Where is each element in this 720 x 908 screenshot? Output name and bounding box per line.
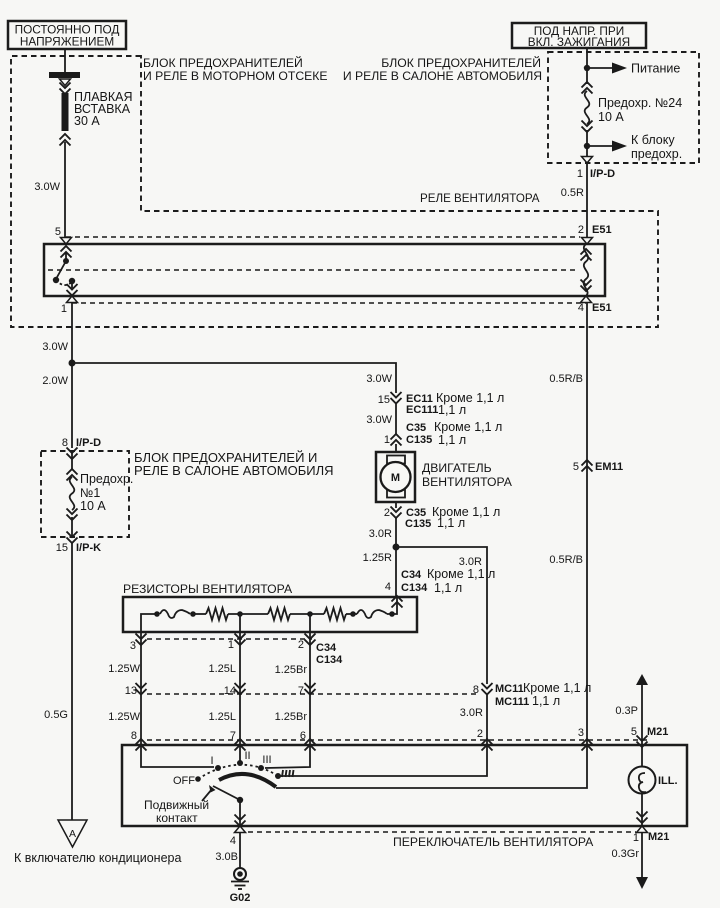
svg-text:I: I: [210, 755, 213, 767]
svg-text:10 А: 10 А: [80, 499, 106, 513]
wire pivot to pin 4: [239, 800, 241, 826]
wire into motor: [395, 444, 397, 452]
lamp ILL.: [629, 767, 678, 827]
svg-text:1,1 л: 1,1 л: [438, 433, 466, 447]
ground G02: [230, 868, 251, 904]
connector EM11 pin 5: [573, 460, 623, 473]
wire pin 7 to contact II: [239, 745, 241, 762]
svg-text:1.25L: 1.25L: [208, 663, 236, 675]
svg-text:3.0W: 3.0W: [34, 181, 60, 193]
svg-text:4: 4: [578, 302, 584, 314]
IIII tally: [282, 770, 294, 777]
bus bar: [49, 72, 80, 78]
svg-text:10 А: 10 А: [598, 110, 624, 124]
connector pin 1 I/P-D: [577, 157, 615, 181]
svg-text:1,1 л: 1,1 л: [438, 403, 466, 417]
svg-text:БЛОК ПРЕДОХРАНИТЕЛЕЙ: БЛОК ПРЕДОХРАНИТЕЛЕЙ: [381, 55, 541, 70]
svg-text:№1: №1: [80, 486, 100, 500]
svg-text:C34: C34: [316, 642, 337, 654]
svg-text:2.0W: 2.0W: [42, 375, 68, 387]
connector C35/C135 pin 1: [384, 420, 502, 447]
internal chain wires: [141, 614, 157, 632]
junction node branch to motor: [69, 360, 76, 367]
pin 4 exit V: [581, 296, 592, 303]
pin 4 E51 label: [578, 302, 612, 314]
node pin1 tap: [237, 611, 243, 617]
svg-text:E51: E51: [592, 302, 612, 314]
svg-text:30 А: 30 А: [74, 114, 100, 128]
resistor R1: [206, 608, 228, 620]
label: БЛОК ПРЕДОХРАНИТЕЛЕЙ И РЕЛЕ В САЛОНЕ АВТОМОБИЛЯ: [343, 55, 542, 83]
svg-text:НАПРЯЖЕНИЕМ: НАПРЯЖЕНИЕМ: [20, 35, 114, 49]
fusible link 30A (thick bar): [62, 93, 69, 131]
svg-text:2: 2: [477, 728, 483, 740]
contact dots OFF..IIII: [195, 776, 201, 782]
node: [350, 611, 356, 617]
pins 8/7/6 into switch: [131, 730, 316, 751]
node: open connector V below bus: [60, 79, 71, 86]
svg-text:ДВИГАТЕЛЬ: ДВИГАТЕЛЬ: [422, 461, 492, 475]
svg-text:OFF: OFF: [173, 775, 195, 787]
svg-text:К блоку: К блоку: [631, 133, 675, 147]
chevron into fusible link: [60, 83, 71, 95]
wire pin1 down to junction: [71, 303, 73, 448]
dashed box: fuse/relay block in cabin (top right): [548, 52, 699, 163]
svg-text:C135: C135: [406, 434, 432, 446]
connector dashed line above relay: [66, 236, 580, 238]
svg-text:2: 2: [298, 639, 304, 651]
svg-text:Питание: Питание: [631, 62, 680, 76]
svg-text:5: 5: [55, 226, 61, 238]
node junction to fuse block: [584, 143, 590, 149]
svg-text:1,1 л: 1,1 л: [434, 581, 462, 595]
svg-text:0.3P: 0.3P: [615, 705, 638, 717]
svg-text:0.5R/B: 0.5R/B: [549, 554, 583, 566]
node: [389, 611, 395, 617]
wire 0.3Gr down: [611, 833, 648, 889]
node: [154, 611, 160, 617]
wire resistor tap 1 down: [239, 632, 241, 745]
wire resistor tap 3 down: [140, 632, 142, 745]
svg-text:G02: G02: [230, 892, 251, 904]
svg-text:6: 6: [300, 730, 306, 742]
svg-text:EC111: EC111: [406, 404, 438, 416]
svg-text:1: 1: [633, 832, 639, 844]
connector C34/C134 row: [130, 634, 343, 667]
wire below fuse 24: [586, 130, 588, 161]
svg-text:4: 4: [230, 835, 236, 847]
svg-text:И РЕЛЕ В САЛОНЕ АВТОМОБИЛЯ: И РЕЛЕ В САЛОНЕ АВТОМОБИЛЯ: [343, 69, 542, 83]
svg-text:8: 8: [131, 730, 137, 742]
svg-text:ВКЛ. ЗАЖИГАНИЯ: ВКЛ. ЗАЖИГАНИЯ: [528, 35, 630, 49]
svg-text:3.0W: 3.0W: [42, 341, 68, 353]
svg-text:3.0W: 3.0W: [366, 373, 392, 385]
svg-text:3.0W: 3.0W: [366, 414, 392, 426]
svg-text:M21: M21: [648, 831, 669, 843]
relay coil: [581, 244, 592, 296]
pin 2 into switch: [477, 728, 493, 751]
svg-text:0.5R: 0.5R: [561, 187, 584, 199]
wire: [395, 403, 397, 434]
svg-text:1.25W: 1.25W: [108, 711, 140, 723]
wire pin 8 to contact I: [141, 745, 214, 767]
svg-text:1.25L: 1.25L: [208, 711, 236, 723]
svg-text:1.25Br: 1.25Br: [275, 664, 308, 676]
relay U1 box: [44, 244, 605, 296]
svg-text:Кроме 1,1 л: Кроме 1,1 л: [434, 420, 502, 434]
pin 1 exit V: [637, 826, 648, 833]
svg-text:MC111: MC111: [495, 696, 529, 708]
pin 2 entry V: [582, 238, 593, 245]
wire 0.5R down to relay pin 2: [586, 163, 588, 244]
movable contact arm: [202, 785, 243, 803]
svg-text:III: III: [262, 754, 271, 766]
dashed box: fuse block in cabin (left): [41, 451, 129, 537]
svg-text:1.25W: 1.25W: [108, 663, 140, 675]
svg-text:Предохр. №24: Предохр. №24: [598, 96, 682, 110]
svg-text:ILL.: ILL.: [658, 775, 678, 787]
svg-text:1: 1: [228, 639, 234, 651]
svg-text:3: 3: [578, 727, 584, 739]
chevron below fusible link: [60, 134, 71, 146]
wire motor to resistor block: [395, 517, 397, 597]
svg-text:1.25R: 1.25R: [363, 552, 392, 564]
svg-text:Подвижный: Подвижный: [144, 798, 209, 812]
svg-text:15: 15: [378, 394, 390, 406]
svg-text:1.25Br: 1.25Br: [275, 711, 308, 723]
label: ПЛАВКАЯ ВСТАВКА 30 А: [74, 90, 133, 128]
connector C35/C135 pin 2: [384, 502, 500, 530]
fuse №1 10A: [67, 451, 134, 537]
svg-text:E51: E51: [592, 224, 612, 236]
motor M1: fan motor: [376, 452, 415, 502]
connector dashed line below relay: [72, 302, 586, 304]
svg-text:8: 8: [473, 684, 479, 696]
svg-text:БЛОК ПРЕДОХРАНИТЕЛЕЙ: БЛОК ПРЕДОХРАНИТЕЛЕЙ: [143, 55, 303, 70]
wire 3.0R branch right and down: [396, 547, 487, 684]
wire thick arc to pin 3: [276, 745, 587, 788]
connector MC11/MC111 pin 8: [473, 681, 591, 708]
svg-text:I/P-D: I/P-D: [590, 168, 615, 180]
node pin2 tap: [307, 611, 313, 617]
arrow Питание: [587, 62, 680, 76]
label box: ПОСТОЯННО ПОД НАПРЯЖЕНИЕМ: [8, 21, 126, 49]
common thick arc: [219, 774, 276, 787]
label: ДВИГАТЕЛЬ ВЕНТИЛЯТОРА: [422, 461, 513, 489]
svg-text:РЕЛЕ ВЕНТИЛЯТОРА: РЕЛЕ ВЕНТИЛЯТОРА: [420, 192, 540, 205]
wire from battery box down: [64, 49, 66, 72]
pin 1 M21 label: [633, 831, 670, 844]
svg-text:EM11: EM11: [595, 461, 623, 473]
svg-text:II: II: [244, 750, 250, 762]
svg-text:3.0В: 3.0В: [215, 851, 238, 863]
svg-text:13: 13: [125, 685, 137, 697]
connector C34/C134 pin 4: [385, 567, 495, 608]
svg-text:I/P-D: I/P-D: [76, 437, 101, 449]
pin 2 E51 label: [578, 224, 612, 236]
svg-text:3: 3: [130, 640, 136, 652]
svg-text:C135: C135: [405, 518, 431, 530]
svg-text:Кроме 1,1 л: Кроме 1,1 л: [427, 567, 495, 581]
label box: ПОД НАПР. ПРИ ВКЛ. ЗАЖИГАНИЯ: [512, 23, 646, 49]
relay internal dashed divider: [48, 269, 577, 271]
wire pin 6 to contact III: [265, 745, 310, 768]
svg-text:M: M: [391, 472, 400, 484]
svg-text:1: 1: [384, 434, 390, 446]
node junction to Питание: [584, 65, 590, 71]
relay contact (pin 5 to pin 1): [61, 238, 72, 245]
svg-text:A: A: [69, 828, 76, 840]
svg-text:0.5G: 0.5G: [44, 709, 68, 721]
svg-text:4: 4: [385, 581, 391, 593]
label: Подвижный контакт: [144, 798, 209, 825]
svg-text:Кроме 1,1 л: Кроме 1,1 л: [523, 681, 591, 695]
svg-text:РЕЛЕ В САЛОНЕ АВТОМОБИЛЯ: РЕЛЕ В САЛОНЕ АВТОМОБИЛЯ: [134, 463, 334, 478]
fuse №24 10A: [582, 82, 683, 132]
wire MC11 to switch pin 2: [486, 695, 488, 745]
svg-text:контакт: контакт: [156, 811, 198, 825]
svg-text:MC11: MC11: [495, 683, 524, 695]
wire 0.5R/B relay pin4 down: [586, 303, 588, 745]
pin 3 into switch: [578, 727, 593, 751]
coil right: [357, 610, 387, 618]
svg-text:7: 7: [298, 685, 304, 697]
wire 0.5G down to A/C: [71, 543, 73, 820]
fan switch box: [122, 745, 687, 826]
svg-text:предохр.: предохр.: [631, 147, 682, 161]
svg-text:РЕЗИСТОРЫ ВЕНТИЛЯТОРА: РЕЗИСТОРЫ ВЕНТИЛЯТОРА: [123, 582, 293, 596]
svg-text:ПЕРЕКЛЮЧАТЕЛЬ ВЕНТИЛЯТОРА: ПЕРЕКЛЮЧАТЕЛЬ ВЕНТИЛЯТОРА: [393, 835, 594, 849]
resistor block box: [123, 597, 417, 632]
wire down to relay pin 5: [64, 142, 66, 244]
connector EC11/EC111 pin 15: [378, 391, 505, 417]
svg-text:1,1 л: 1,1 л: [437, 516, 465, 530]
intermediate connector row 13/14/7: [125, 683, 480, 697]
wire 3.0B to ground: [239, 833, 241, 868]
svg-text:К включателю кондиционера: К включателю кондиционера: [14, 851, 181, 865]
svg-text:M21: M21: [647, 726, 668, 738]
resistor R2: [268, 608, 290, 620]
M21 dashed row below switch: [248, 831, 636, 833]
wire resistor tap 2 down: [309, 632, 311, 745]
svg-text:C35: C35: [406, 422, 426, 434]
svg-text:ВЕНТИЛЯТОРА: ВЕНТИЛЯТОРА: [422, 475, 513, 489]
dashed enclosure: fuse/relay block engine compartment + fan relay: [11, 56, 658, 327]
svg-text:1,1 л: 1,1 л: [532, 694, 560, 708]
label: БЛОК ПРЕДОХРАНИТЕЛЕЙ И РЕЛЕ В САЛОНЕ АВТОМОБИЛЯ: [134, 450, 334, 478]
svg-text:14: 14: [224, 685, 236, 697]
svg-text:2: 2: [578, 224, 584, 236]
svg-text:1: 1: [61, 303, 67, 315]
svg-text:Предохр.: Предохр.: [80, 472, 133, 486]
wire ignition feed: [586, 48, 588, 84]
svg-text:0.3Gr: 0.3Gr: [611, 848, 639, 860]
rotor dotted arc: [198, 765, 278, 779]
svg-text:0.5R/B: 0.5R/B: [549, 373, 583, 385]
pin 8 I/P-D: [62, 437, 101, 459]
label: БЛОК ПРЕДОХРАНИТЕЛЕЙ И РЕЛЕ В МОТОРНОМ ОТСЕКЕ: [143, 55, 327, 83]
pin 15 I/P-K: [56, 532, 101, 555]
svg-text:C134: C134: [401, 582, 428, 594]
wire branch right to motor column: [72, 363, 396, 393]
arrow К блоку предохр.: [587, 133, 682, 161]
thermal fuse coil left: [160, 610, 190, 618]
svg-text:1: 1: [577, 168, 583, 180]
wire: [193, 613, 206, 615]
svg-text:C34: C34: [401, 569, 422, 581]
svg-text:И РЕЛЕ В МОТОРНОМ ОТСЕКЕ: И РЕЛЕ В МОТОРНОМ ОТСЕКЕ: [143, 69, 327, 83]
svg-text:15: 15: [56, 542, 68, 554]
svg-text:C134: C134: [316, 654, 343, 666]
pin 5 M21 (illumination feed): [615, 674, 668, 767]
wire IIII to pin 2: [278, 745, 487, 776]
node: [190, 611, 196, 617]
resistor R3: [324, 608, 346, 620]
svg-text:2: 2: [384, 507, 390, 519]
node A: triangle to A/C switch: [58, 820, 87, 847]
M21 connector dashed row: [147, 739, 650, 741]
svg-text:I/P-K: I/P-K: [76, 542, 101, 554]
pin 1 exit V: [67, 296, 78, 303]
svg-text:7: 7: [230, 730, 236, 742]
junction node motor output: [393, 544, 400, 551]
pin 4 exit V: [235, 826, 246, 833]
svg-text:3.0R: 3.0R: [369, 528, 392, 540]
svg-text:3.0R: 3.0R: [460, 707, 483, 719]
svg-text:5: 5: [573, 461, 579, 473]
